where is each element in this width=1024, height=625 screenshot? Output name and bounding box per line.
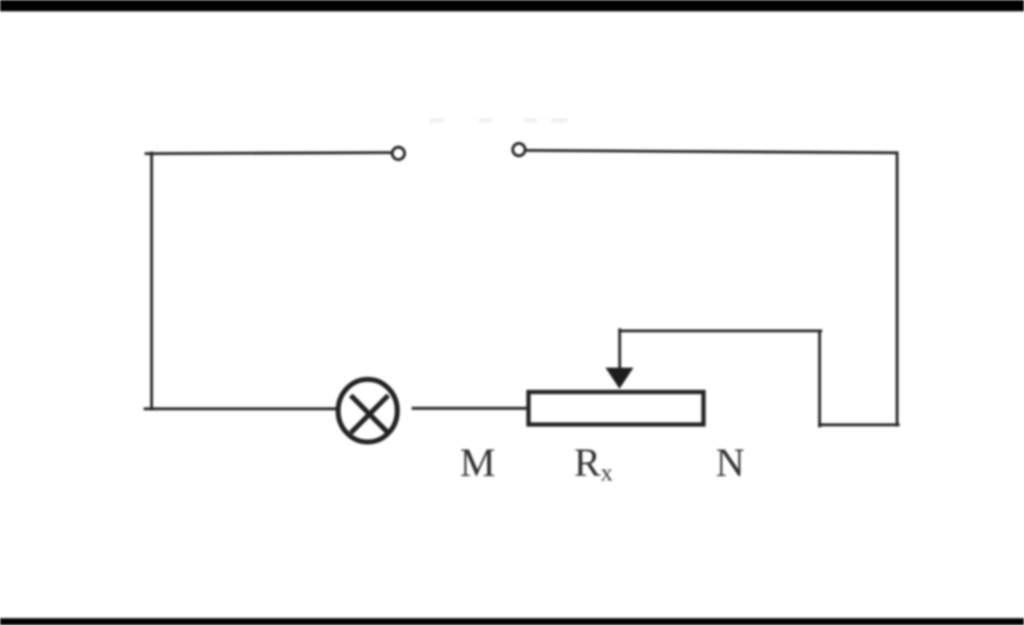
svg-text:M: M <box>460 440 496 485</box>
svg-text:N: N <box>716 440 745 485</box>
